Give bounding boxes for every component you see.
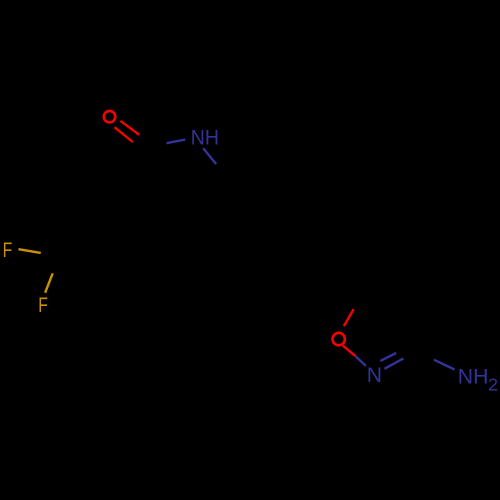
svg-text:NH: NH — [458, 365, 489, 388]
svg-text:N: N — [367, 364, 382, 387]
svg-text:2: 2 — [488, 375, 498, 395]
svg-text:F: F — [3, 239, 13, 262]
svg-text:NH: NH — [191, 126, 219, 149]
svg-text:F: F — [38, 294, 48, 317]
